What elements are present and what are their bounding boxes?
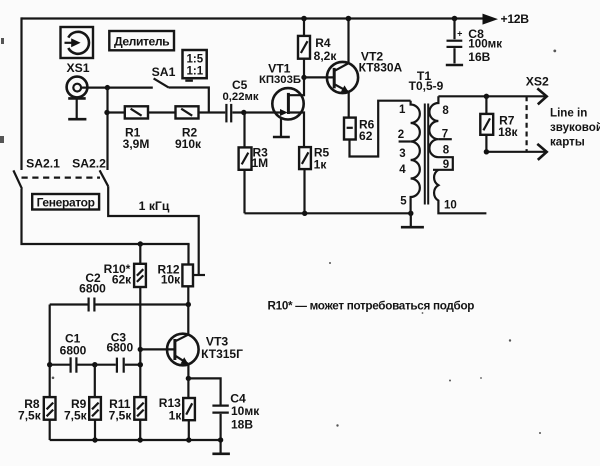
resistor R13 xyxy=(183,398,195,420)
svg-text:SA2.1: SA2.1 xyxy=(26,157,60,171)
transformer T1 primary winding xyxy=(411,101,420,214)
svg-text:Line in: Line in xyxy=(550,107,587,120)
node B junction xyxy=(92,362,97,367)
wire R5 to ground rail xyxy=(303,169,305,213)
switch SA2.2 lever xyxy=(100,170,109,186)
svg-text:R10* — может потребоваться под: R10* — может потребоваться подбор xyxy=(268,300,475,313)
wire 1kHz stub xyxy=(193,274,205,276)
node rail junction R4 xyxy=(301,16,307,22)
wire emitter to R13 xyxy=(187,378,189,398)
svg-text:КТ315Г: КТ315Г xyxy=(201,347,243,361)
wire R1 to R2 xyxy=(148,111,176,113)
resistor R12 xyxy=(182,265,193,287)
wire R12 bottom to collector node xyxy=(187,286,189,304)
node R10 top junction xyxy=(138,241,143,246)
ground rail of amplifier xyxy=(245,212,411,214)
box Генератор xyxy=(32,194,99,210)
svg-text:910к: 910к xyxy=(175,137,202,151)
node rail junction C8 xyxy=(452,16,458,22)
connector XS1 xyxy=(67,77,88,98)
VT2 collector wire to rail xyxy=(335,19,349,71)
wire input node to R1 xyxy=(108,111,125,113)
resistor R9 xyxy=(94,365,96,440)
node emitter junction xyxy=(186,376,191,381)
svg-text:18к: 18к xyxy=(498,125,518,139)
node base junction xyxy=(138,347,143,352)
wire R13 bottom xyxy=(188,420,190,440)
VT3 collector wire xyxy=(175,305,188,342)
wire input node down to SA2.2 xyxy=(106,88,108,170)
wire R7 top xyxy=(485,96,487,114)
svg-text:16В: 16В xyxy=(468,50,490,64)
svg-text:XS2: XS2 xyxy=(526,74,549,88)
svg-text:5: 5 xyxy=(400,195,407,207)
resistor R5 xyxy=(299,147,311,169)
svg-text:7,5к: 7,5к xyxy=(64,408,88,422)
svg-text:6800: 6800 xyxy=(79,281,106,295)
svg-text:1:5: 1:5 xyxy=(186,53,203,65)
ground VT1 case xyxy=(280,117,282,136)
ground C4 xyxy=(212,452,230,455)
wire R10 top xyxy=(139,244,141,264)
wire SA1 to C5 node xyxy=(169,88,209,113)
svg-text:1 кГц: 1 кГц xyxy=(139,199,170,213)
node C5/R3 junction xyxy=(241,110,246,115)
wire VT2 emitter to R6 xyxy=(348,92,350,118)
resistor R10* xyxy=(134,264,146,287)
switch link dashed SA2 xyxy=(22,177,101,179)
svg-text:6800: 6800 xyxy=(60,344,87,358)
resistor R2 xyxy=(176,106,199,118)
svg-text:7: 7 xyxy=(442,129,448,141)
svg-text:8: 8 xyxy=(442,105,449,117)
transformer T1 primary tap pin2 xyxy=(399,140,411,142)
node A junction xyxy=(47,362,52,367)
wire VT3 emitter down xyxy=(187,364,189,378)
svg-text:8: 8 xyxy=(443,145,450,157)
wire rail to R4 xyxy=(303,19,305,36)
svg-text:10мк: 10мк xyxy=(231,404,260,418)
svg-text:Генератор: Генератор xyxy=(37,195,95,209)
switch SA1 contact dash xyxy=(185,80,193,82)
box Делитель xyxy=(109,31,174,50)
svg-text:1к: 1к xyxy=(314,158,328,172)
svg-text:100мк: 100мк xyxy=(468,38,502,51)
svg-text:9: 9 xyxy=(443,159,449,171)
VT1 drain wire to R4/VT2 base node xyxy=(288,77,304,95)
resistor R6 xyxy=(344,118,356,140)
wire C5 to VT1 gate xyxy=(232,111,285,113)
wire left vertical from rail to SA2.1 xyxy=(20,17,22,170)
wire R6 to transformer pin1 xyxy=(350,101,411,157)
wire R7 bottom / XS2 lower xyxy=(486,135,546,152)
transformer T1 secondary winding xyxy=(429,96,453,170)
node VT2 base junction xyxy=(301,75,306,80)
svg-text:1:1: 1:1 xyxy=(186,66,203,78)
svg-text:0,22мк: 0,22мк xyxy=(223,91,259,103)
wire secondary top to XS2 xyxy=(438,95,546,97)
connector icon circle xyxy=(68,32,89,54)
node collector junction xyxy=(186,302,191,307)
svg-text:62: 62 xyxy=(359,129,373,143)
svg-text:8,2к: 8,2к xyxy=(314,49,338,63)
wire SA2.1 bottom down to generator rail xyxy=(22,189,190,244)
generator ground rail xyxy=(50,439,221,441)
ground XS1 xyxy=(68,118,86,121)
wire R12 top drop xyxy=(187,244,189,265)
wire C2 to collector node xyxy=(96,303,189,305)
node R1 row junction xyxy=(104,110,109,115)
box 1:5 / 1:1 xyxy=(183,50,207,78)
wire node A down xyxy=(49,305,51,398)
svg-text:6800: 6800 xyxy=(106,340,133,354)
wire R4 to VT2 base node xyxy=(303,59,305,78)
svg-text:62к: 62к xyxy=(112,272,132,286)
resistor R4 xyxy=(298,36,310,59)
ground C8 xyxy=(446,64,463,67)
VT2 emitter with arrow xyxy=(335,84,349,92)
wire emitter to C4 xyxy=(188,378,220,404)
svg-text:SA2.2: SA2.2 xyxy=(72,157,106,171)
capacitor C8 xyxy=(453,19,455,40)
wire R3 to ground rail xyxy=(243,170,245,214)
wire R3 down xyxy=(243,113,245,148)
svg-text:Делитель: Делитель xyxy=(114,34,169,48)
wire R10 bottom to base node xyxy=(139,287,141,397)
switch SA1 lever xyxy=(154,78,169,87)
+12V arrowhead xyxy=(483,14,499,25)
svg-text:2: 2 xyxy=(398,129,404,141)
transformer T1 secondary tap pin7 xyxy=(438,138,451,140)
svg-text:3,9М: 3,9М xyxy=(123,137,150,151)
svg-text:звуковой: звуковой xyxy=(550,121,600,134)
svg-text:3: 3 xyxy=(399,148,405,160)
svg-text:7,5к: 7,5к xyxy=(18,408,42,422)
svg-text:1М: 1М xyxy=(251,156,268,170)
svg-text:SA1: SA1 xyxy=(152,65,176,79)
svg-text:4: 4 xyxy=(399,164,406,176)
wire XS1 to input node xyxy=(81,86,153,88)
connector icon box xyxy=(61,27,94,58)
switch SA2.1 lever xyxy=(13,170,22,188)
capacitor C5 xyxy=(225,104,227,123)
resistor R8 xyxy=(49,420,51,440)
connector icon arrow xyxy=(65,42,73,44)
svg-text:10: 10 xyxy=(444,200,457,212)
transformer T1 core xyxy=(425,104,428,205)
node input junction xyxy=(105,85,110,90)
svg-text:КП303Б: КП303Б xyxy=(259,74,301,86)
wire base node to VT2 xyxy=(304,76,333,78)
wire R2 to C5 xyxy=(199,111,226,113)
wire base node to VT3 xyxy=(140,348,173,350)
svg-text:10к: 10к xyxy=(161,273,181,287)
dashed connector line XS2 xyxy=(525,96,527,152)
svg-text:XS1: XS1 xyxy=(66,61,89,75)
svg-text:КТ830А: КТ830А xyxy=(359,61,403,75)
svg-text:7,5к: 7,5к xyxy=(109,408,133,422)
resistor R1 xyxy=(125,106,148,118)
svg-text:1к: 1к xyxy=(169,408,183,422)
capacitor C4 xyxy=(212,405,228,407)
svg-text:карты: карты xyxy=(550,136,585,149)
svg-text:1: 1 xyxy=(399,104,406,116)
svg-text:Т0,5-9: Т0,5-9 xyxy=(409,79,444,93)
svg-text:+12В: +12В xyxy=(501,12,530,26)
svg-text:18В: 18В xyxy=(231,418,253,432)
wire +12V top rail xyxy=(22,17,484,19)
node C junction C3/R10/R11 xyxy=(138,362,143,367)
ground symbol primary xyxy=(410,213,412,226)
resistor R11 xyxy=(134,397,146,420)
svg-text:С5: С5 xyxy=(232,78,248,92)
VT1 source wire to R5 xyxy=(288,113,304,148)
svg-text:+: + xyxy=(457,28,462,38)
VT3 emitter with arrow xyxy=(175,356,188,364)
wire SA2.2 to 1kHz line xyxy=(108,186,199,275)
resistor R3 xyxy=(239,147,252,169)
scan speckles xyxy=(0,38,556,434)
resistor R7 xyxy=(480,114,493,135)
